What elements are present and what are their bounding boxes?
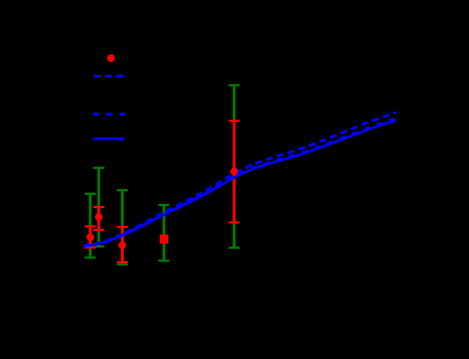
model curve dotted bbox=[83, 119, 396, 247]
green error bar P4 bbox=[158, 205, 169, 261]
red error bar P1 bbox=[85, 226, 96, 247]
data marker P1 bbox=[87, 233, 95, 241]
green error bar P3 bbox=[117, 190, 128, 264]
red error bar P5 bbox=[229, 121, 240, 223]
data marker P5 bbox=[230, 168, 238, 176]
model curve dashed bbox=[83, 113, 396, 247]
legend marker (red circle) bbox=[107, 54, 115, 62]
green error bar P5 bbox=[229, 85, 240, 248]
data marker P2 bbox=[95, 213, 103, 221]
legend dotted line bbox=[93, 113, 125, 116]
green error bar P2 bbox=[93, 168, 104, 247]
data marker P4 (square) bbox=[160, 235, 168, 244]
legend dashed line bbox=[94, 75, 124, 78]
red error bar P3 bbox=[117, 227, 128, 262]
data marker P3 bbox=[119, 242, 127, 250]
model curve solid bbox=[83, 120, 396, 246]
red error bar P2 bbox=[93, 207, 104, 230]
legend solid line bbox=[93, 137, 124, 140]
green error bar P1 bbox=[85, 194, 96, 258]
